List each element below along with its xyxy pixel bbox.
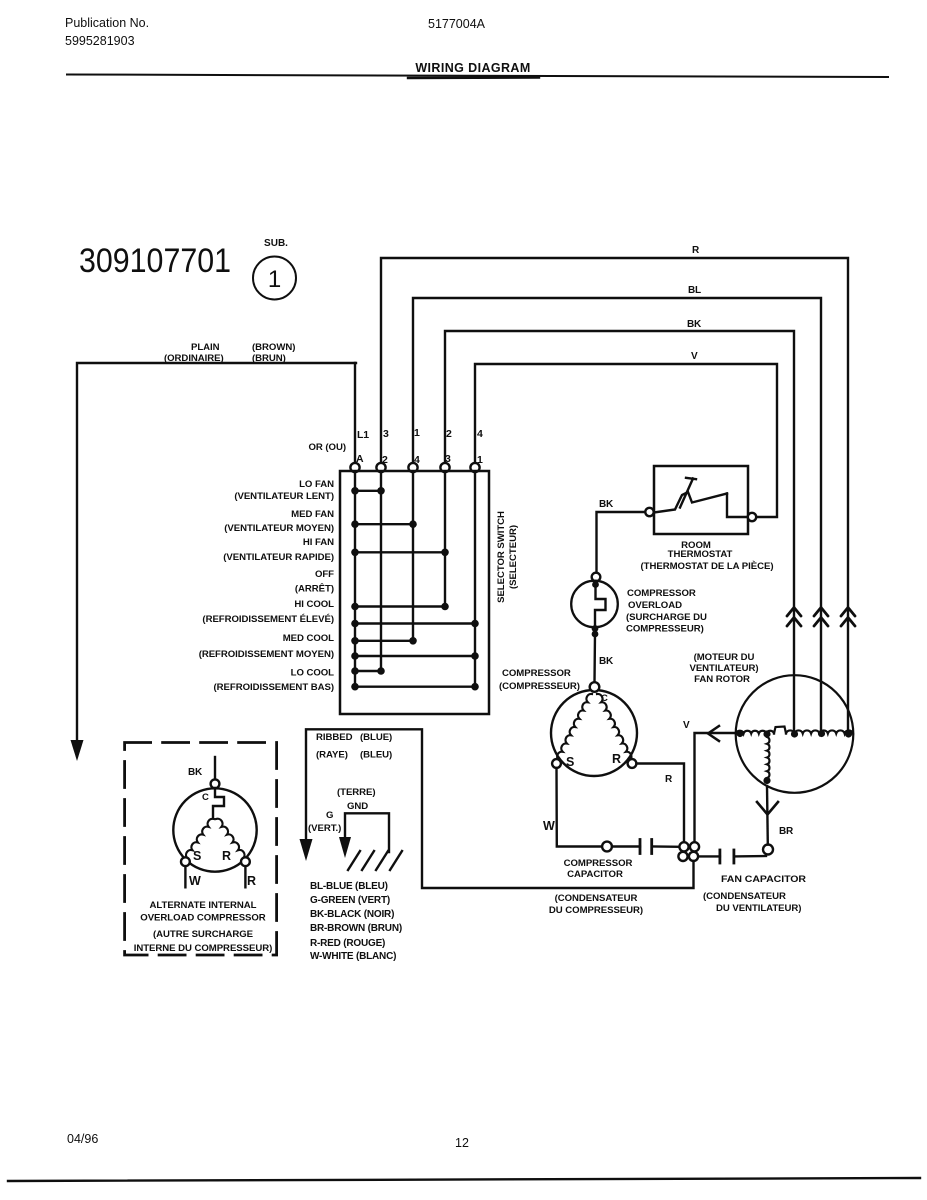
- svg-text:G-GREEN (VERT): G-GREEN (VERT): [310, 895, 390, 906]
- ground wire G: [345, 813, 389, 852]
- neutral wire cluster to power cord: [306, 729, 694, 888]
- wire capacitor to connector cluster: [652, 845, 680, 848]
- room thermostat box: [654, 466, 748, 534]
- label BL: [688, 285, 701, 296]
- thermostat actuator arm: [680, 478, 696, 508]
- svg-text:BL-BLUE (BLEU): BL-BLUE (BLEU): [310, 881, 388, 892]
- svg-text:FAN ROTOR: FAN ROTOR: [694, 674, 750, 685]
- header publication number text: [65, 16, 486, 48]
- svg-text:RIBBED: RIBBED: [316, 732, 353, 743]
- svg-text:(VENTILATEUR LENT): (VENTILATEUR LENT): [234, 491, 334, 502]
- label V 2: [683, 720, 690, 731]
- svg-text:(BLUE): (BLUE): [360, 732, 392, 743]
- svg-text:OVERLOAD: OVERLOAD: [628, 600, 682, 611]
- svg-text:R: R: [222, 849, 231, 863]
- label FAN ROTOR: [689, 652, 758, 685]
- svg-text:DU VENTILATEUR): DU VENTILATEUR): [716, 903, 801, 914]
- svg-text:VENTILATEUR): VENTILATEUR): [689, 663, 758, 674]
- wire BK alt compressor: [214, 757, 216, 780]
- svg-text:(VENTILATEUR RAPIDE): (VENTILATEUR RAPIDE): [223, 552, 334, 563]
- svg-text:MED FAN: MED FAN: [291, 509, 334, 520]
- wire label PLAIN (BROWN): [164, 342, 295, 364]
- wire L1 plain brown: horizontal + left drop: [77, 363, 356, 741]
- thermostat switch blade: [654, 492, 727, 513]
- svg-text:LO COOL: LO COOL: [291, 668, 335, 679]
- svg-text:BK: BK: [687, 319, 702, 330]
- alternate compressor dashed enclosure: [125, 743, 277, 956]
- svg-text:COMPRESSOR: COMPRESSOR: [502, 668, 571, 679]
- svg-text:04/96: 04/96: [67, 1132, 98, 1146]
- svg-text:(RAYE): (RAYE): [316, 750, 348, 761]
- fan motor aux winding vertical: [767, 737, 769, 778]
- wire BK thermostat to overload: [597, 512, 646, 573]
- fan capacitor plates: [719, 850, 722, 863]
- switch pole 3 vertical: [444, 472, 446, 607]
- svg-text:OFF: OFF: [315, 569, 334, 580]
- compressor run winding (right coil): [597, 694, 631, 760]
- contact row HI COOL fan A-3: [355, 605, 445, 607]
- compressor capacitor plates: [639, 840, 642, 854]
- label BK: [599, 499, 614, 510]
- svg-text:4: 4: [477, 428, 483, 440]
- footer date text: [67, 1132, 469, 1150]
- svg-text:(BROWN): (BROWN): [252, 342, 295, 353]
- svg-text:(REFROIDISSEMENT ÉLEVÉ): (REFROIDISSEMENT ÉLEVÉ): [202, 613, 334, 625]
- label SELECTOR SWITCH (SELECTEUR) rotated: [496, 511, 519, 603]
- alt compressor internal overload element: [213, 788, 224, 818]
- wire BL top run: [413, 298, 821, 730]
- wire BR up to fan motor: [766, 786, 769, 845]
- arrow to power cord L1: [71, 740, 84, 761]
- svg-text:BK: BK: [599, 499, 614, 510]
- svg-text:SUB.: SUB.: [264, 238, 288, 249]
- label R 3: [222, 849, 231, 863]
- svg-text:(CONDENSATEUR: (CONDENSATEUR: [555, 893, 638, 904]
- svg-text:THERMOSTAT: THERMOSTAT: [668, 549, 733, 560]
- label COMPRESSOR CAPACITOR: [549, 858, 643, 916]
- svg-text:COMPRESSEUR): COMPRESSEUR): [626, 624, 704, 635]
- thermostat left terminal: [645, 508, 653, 516]
- svg-text:(CONDENSATEUR: (CONDENSATEUR: [703, 891, 786, 902]
- overload junction dot bottom: [592, 625, 599, 632]
- svg-text:(ARRÊT): (ARRÊT): [295, 583, 334, 595]
- label W: [543, 819, 555, 833]
- svg-text:FAN CAPACITOR: FAN CAPACITOR: [721, 874, 806, 885]
- label W 2: [189, 874, 201, 888]
- compressor capacitor terminal: [602, 842, 612, 852]
- switch pole 4 vertical: [412, 472, 414, 641]
- alt compressor terminal R: [241, 857, 250, 866]
- compressor terminal C: [590, 682, 600, 692]
- svg-text:(SELECTEUR): (SELECTEUR): [508, 525, 519, 589]
- svg-text:(THERMOSTAT DE LA PIÈCE): (THERMOSTAT DE LA PIÈCE): [641, 560, 774, 572]
- selector switch terminal 3: [440, 463, 449, 472]
- arrow BR chevron down: [757, 802, 778, 815]
- svg-text:V: V: [691, 351, 698, 362]
- svg-text:S: S: [566, 755, 574, 769]
- arrow V direction chevron: [708, 726, 719, 741]
- selector switch terminal 2: [376, 463, 385, 472]
- svg-text:L1: L1: [357, 429, 369, 441]
- svg-text:(VERT.): (VERT.): [308, 823, 341, 834]
- svg-text:DU COMPRESSEUR): DU COMPRESSEUR): [549, 905, 643, 916]
- svg-text:OR (OU): OR (OU): [309, 442, 347, 453]
- arrow neutral power cord: [300, 839, 313, 861]
- svg-text:W-WHITE (BLANC): W-WHITE (BLANC): [310, 951, 396, 962]
- wire R compressor to cluster: [636, 764, 684, 843]
- selector switch S1 body: [340, 471, 489, 714]
- compressor terminal S: [552, 759, 561, 768]
- svg-text:WIRING DIAGRAM: WIRING DIAGRAM: [415, 61, 530, 75]
- fan motor body: [736, 675, 854, 793]
- alt compressor body: [173, 788, 256, 871]
- svg-text:ALTERNATE INTERNAL: ALTERNATE INTERNAL: [150, 900, 257, 911]
- alt compressor start winding: [186, 819, 214, 858]
- switch pole 1 vertical: [474, 472, 476, 687]
- thermostat right internal wire: [727, 494, 748, 518]
- wire color legend: [310, 881, 402, 962]
- svg-text:Publication No.: Publication No.: [65, 16, 149, 30]
- contact row HI COOL comp A-1: [355, 622, 475, 624]
- chassis ground symbol: [348, 851, 402, 870]
- svg-text:INTERNE DU COMPRESSEUR): INTERNE DU COMPRESSEUR): [134, 943, 273, 954]
- wire BK overload to compressor: [593, 633, 596, 682]
- svg-text:BL: BL: [688, 285, 701, 296]
- svg-text:5995281903: 5995281903: [65, 34, 135, 48]
- svg-text:V: V: [683, 720, 690, 731]
- footer rule: [8, 1178, 920, 1181]
- svg-text:BK: BK: [188, 767, 203, 778]
- compressor start winding (left coil): [557, 694, 592, 760]
- contact row LO COOL fan A-2: [355, 670, 381, 672]
- svg-text:HI FAN: HI FAN: [303, 537, 334, 548]
- svg-text:W: W: [543, 819, 555, 833]
- contact row MED FAN A-4: [355, 523, 413, 525]
- svg-text:SELECTOR SWITCH: SELECTOR SWITCH: [496, 511, 507, 603]
- part number 309107701: [79, 238, 288, 280]
- fan capacitor BR terminal: [763, 845, 773, 855]
- svg-text:PLAIN: PLAIN: [191, 342, 220, 353]
- label R 4: [247, 874, 256, 888]
- compressor terminal R: [628, 759, 637, 768]
- contact row HI FAN A-3: [355, 551, 445, 553]
- header rule: [67, 75, 888, 78]
- selector switch terminal 1: [470, 463, 479, 472]
- svg-text:R: R: [692, 245, 700, 256]
- contact row LO COOL comp A-1: [355, 686, 475, 688]
- compressor overload terminal: [592, 573, 601, 582]
- wire BK top run: [445, 331, 794, 730]
- svg-text:C: C: [202, 792, 209, 803]
- label V: [691, 351, 698, 362]
- svg-text:(TERRE): (TERRE): [337, 787, 376, 798]
- label BK: [687, 319, 702, 330]
- label ROOM THERMOSTAT: [641, 540, 774, 572]
- label ALTERNATE INTERNAL OVERLOAD COMPRESSOR: [134, 900, 273, 954]
- compressor overload body: [571, 581, 618, 628]
- wire V fan common to cluster: [695, 733, 736, 842]
- label C 2: [202, 792, 209, 803]
- svg-text:2: 2: [446, 428, 452, 440]
- contact row LO FAN A-2: [355, 490, 381, 492]
- wire cluster to fan capacitor: [699, 855, 720, 857]
- svg-text:G: G: [326, 810, 333, 821]
- wire R top run: [381, 258, 848, 730]
- wire capacitor lead: [612, 845, 640, 847]
- svg-text:LO FAN: LO FAN: [299, 479, 334, 490]
- switch pole A vertical: [354, 472, 356, 687]
- svg-text:(COMPRESSEUR): (COMPRESSEUR): [499, 681, 580, 692]
- label OR (OU): [309, 442, 347, 453]
- svg-text:GND: GND: [347, 801, 368, 812]
- svg-text:(BLEU): (BLEU): [360, 750, 392, 761]
- terminal labels top row L1 3 1 2 4: [356, 427, 483, 466]
- svg-text:OVERLOAD COMPRESSOR: OVERLOAD COMPRESSOR: [140, 913, 266, 924]
- svg-text:1: 1: [414, 427, 420, 439]
- overload disc element: [595, 582, 606, 629]
- contact row MED COOL fan A-4: [355, 640, 413, 642]
- chevron arrows wire R: [841, 608, 855, 617]
- svg-text:(SURCHARGE DU: (SURCHARGE DU: [626, 612, 707, 623]
- label S: [566, 755, 574, 769]
- alt compressor terminal S: [181, 857, 190, 866]
- overload junction dot bottom2: [592, 631, 599, 638]
- svg-text:BK-BLACK (NOIR): BK-BLACK (NOIR): [310, 909, 394, 920]
- thermostat right terminal: [748, 513, 756, 521]
- label COMPRESSOR OVERLOAD: [626, 588, 707, 635]
- label R: [692, 245, 700, 256]
- label FAN CAPACITOR: [703, 874, 806, 914]
- switch pole 2 vertical: [380, 472, 382, 671]
- svg-text:12: 12: [455, 1136, 469, 1150]
- svg-text:MED COOL: MED COOL: [283, 633, 334, 644]
- title WIRING DIAGRAM: [415, 61, 530, 75]
- svg-text:HI COOL: HI COOL: [294, 599, 334, 610]
- fan winding tap dots: [736, 730, 852, 784]
- alt compressor terminal C: [211, 779, 220, 788]
- wire L1 drop to terminal A: [354, 363, 356, 463]
- svg-text:(REFROIDISSEMENT BAS): (REFROIDISSEMENT BAS): [214, 682, 334, 693]
- wire W alt compressor: [184, 866, 186, 887]
- sub revision circle 1: [253, 257, 296, 300]
- contact row MED COOL comp A-1: [355, 655, 475, 657]
- label RIBBED (BLUE): [316, 732, 392, 761]
- selector switch terminal A: [350, 463, 359, 472]
- label GND (TERRE): [308, 787, 376, 834]
- svg-text:(MOTEUR DU: (MOTEUR DU: [694, 652, 755, 663]
- svg-text:309107701: 309107701: [79, 242, 231, 280]
- label COMPRESSOR (COMPRESSEUR): [499, 668, 580, 692]
- svg-text:W: W: [189, 874, 201, 888]
- compressor motor body: [551, 690, 637, 776]
- switch position labels: [199, 479, 334, 693]
- label R 2: [665, 774, 673, 785]
- svg-text:5177004A: 5177004A: [428, 17, 486, 31]
- chevron arrows wire BL: [814, 608, 828, 617]
- svg-text:R: R: [247, 874, 256, 888]
- fan motor main winding: [736, 727, 853, 734]
- wire W from S to compressor capacitor: [557, 768, 603, 847]
- svg-text:S: S: [193, 849, 201, 863]
- svg-text:R-RED (ROUGE): R-RED (ROUGE): [310, 938, 385, 949]
- connector cluster terminals: [679, 842, 688, 851]
- svg-text:BR: BR: [779, 826, 794, 837]
- svg-text:(VENTILATEUR MOYEN): (VENTILATEUR MOYEN): [224, 523, 334, 534]
- arrow ground lead: [339, 837, 351, 858]
- label C: [601, 693, 608, 704]
- svg-text:R: R: [612, 752, 621, 766]
- svg-text:BR-BROWN (BRUN): BR-BROWN (BRUN): [310, 923, 402, 934]
- wire fan capacitor to BR terminal: [734, 855, 766, 858]
- alt compressor run winding: [216, 819, 245, 858]
- svg-text:COMPRESSOR: COMPRESSOR: [564, 858, 633, 869]
- label BK 2: [599, 656, 614, 667]
- svg-text:(REFROIDISSEMENT MOYEN): (REFROIDISSEMENT MOYEN): [199, 649, 334, 660]
- selector switch terminal 4: [408, 463, 417, 472]
- label BR: [779, 826, 794, 837]
- label R: [612, 752, 621, 766]
- svg-text:COMPRESSOR: COMPRESSOR: [627, 588, 696, 599]
- svg-text:BK: BK: [599, 656, 614, 667]
- svg-text:CAPACITOR: CAPACITOR: [567, 869, 623, 880]
- wire V thermostat to switch: [475, 364, 777, 517]
- svg-text:(AUTRE SURCHARGE: (AUTRE SURCHARGE: [153, 929, 254, 940]
- overload junction dot top: [592, 581, 599, 588]
- svg-text:1: 1: [268, 266, 281, 293]
- wire R alt compressor: [244, 866, 246, 887]
- svg-text:R: R: [665, 774, 673, 785]
- label S 2: [193, 849, 201, 863]
- junction dots selector switch: [351, 487, 479, 691]
- label BK 3: [188, 767, 203, 778]
- svg-text:3: 3: [383, 428, 389, 440]
- chevron arrows wire BK: [787, 608, 855, 627]
